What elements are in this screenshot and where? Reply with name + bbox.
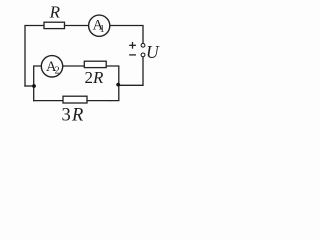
wire right inner vertical lower	[110, 84, 119, 101]
wire top rail left segment	[25, 26, 44, 87]
svg-text:2: 2	[55, 65, 60, 76]
wire 3R right	[87, 100, 110, 102]
resistor 3R	[63, 96, 87, 103]
svg-text:U: U	[146, 42, 160, 62]
wire 2R to right inner vertical	[106, 66, 119, 84]
resistor R	[44, 22, 65, 28]
wire from - terminal down to node B	[120, 57, 143, 85]
node A junction dot	[32, 84, 36, 88]
terminal +	[141, 43, 145, 47]
terminal -	[141, 53, 145, 57]
ammeter A2	[41, 56, 62, 77]
svg-text:1: 1	[100, 24, 105, 35]
minus sign	[130, 54, 136, 56]
node B junction dot	[116, 83, 120, 87]
wire A2 to 2R	[63, 65, 84, 67]
wire A1 to right corner and down to + terminal	[110, 26, 143, 44]
wire bottom rail left of 3R	[34, 100, 63, 102]
svg-text:2R: 2R	[85, 68, 105, 87]
svg-text:3R: 3R	[62, 106, 84, 126]
wire R to A1	[65, 25, 89, 27]
wire left rail bottom to node A	[25, 85, 34, 87]
ammeter A1	[89, 15, 110, 36]
resistor 2R	[84, 61, 106, 67]
plus sign	[130, 44, 136, 46]
wire A2 branch left drop	[34, 66, 41, 101]
svg-text:R: R	[49, 3, 61, 22]
